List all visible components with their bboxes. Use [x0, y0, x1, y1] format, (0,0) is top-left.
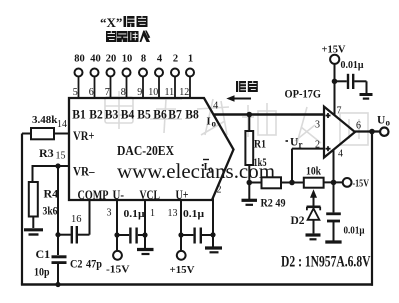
resistor R2 49: [249, 177, 304, 209]
svg-text:4: 4: [338, 149, 343, 160]
node R1 top: [247, 112, 253, 118]
svg-text:VR–: VR–: [73, 165, 95, 179]
svg-text:COMP: COMP: [78, 188, 109, 202]
svg-text:R2 49: R2 49: [261, 196, 286, 210]
terminal Uo: [377, 115, 391, 136]
node Ur: [289, 180, 295, 186]
wires: input stubs to DAC top edge: [79, 77, 191, 98]
op-amp U2 OP-17G: [324, 107, 355, 158]
node pin13: [178, 232, 183, 237]
svg-text:R3: R3: [39, 146, 54, 160]
ground (R1): [242, 183, 258, 205]
svg-text:13: 13: [168, 208, 178, 219]
ground (top 0.01u): [360, 95, 373, 99]
potentiometer 10k: [304, 166, 343, 206]
svg-text:4: 4: [213, 101, 219, 112]
op-amp - mark: [326, 146, 331, 151]
DAC U1 DAC-20EX body: [69, 98, 234, 200]
input terminal weight labels: [74, 54, 193, 65]
capacitor 0.01u (right -15V bypass): [326, 182, 364, 240]
svg-text:U-: U-: [113, 188, 125, 202]
svg-text:80: 80: [74, 54, 85, 65]
svg-text:15: 15: [56, 151, 66, 162]
wire Io (pin 4) to op-amp +input: [214, 113, 325, 115]
terminal +15V (pin 13): [170, 251, 195, 276]
svg-text:R4: R4: [44, 187, 59, 201]
svg-text:DAC-20EX: DAC-20EX: [117, 144, 174, 159]
ground (R4): [24, 230, 43, 235]
svg-text:16: 16: [71, 214, 82, 225]
svg-text:10: 10: [148, 87, 158, 98]
node pin4 supply: [331, 180, 337, 186]
wire pin4 to -15V node: [333, 150, 335, 183]
svg-text:U+: U+: [176, 188, 189, 202]
label Ur: [286, 137, 303, 150]
node pin3: [114, 232, 119, 237]
svg-text:7: 7: [105, 87, 110, 98]
node output: [369, 129, 375, 135]
svg-text:0.1μ: 0.1μ: [124, 209, 145, 220]
bottom rail wire: [21, 283, 373, 286]
wire node column x58: [57, 166, 59, 255]
svg-text:3: 3: [107, 208, 112, 219]
svg-text:B5: B5: [137, 108, 151, 122]
label B1..B8: [72, 108, 199, 122]
wire pin7 to +15V: [334, 64, 336, 116]
svg-text:1k5: 1k5: [254, 157, 267, 169]
svg-text:“X”: “X”: [100, 15, 122, 30]
pin 1 stub (VCL): [144, 200, 146, 248]
wire VR- (pin 15): [33, 165, 70, 167]
svg-text:40: 40: [90, 54, 101, 65]
svg-text:10k: 10k: [306, 166, 321, 178]
svg-text:7: 7: [337, 106, 342, 117]
svg-text:r: r: [299, 140, 303, 150]
svg-text:3k6: 3k6: [43, 204, 58, 218]
pin numbers 5..12: [73, 87, 189, 98]
node C1 on bottom rail: [55, 282, 60, 287]
pin 3 stub (U-): [116, 200, 118, 251]
svg-text:2: 2: [217, 185, 222, 196]
svg-text:-15V: -15V: [353, 179, 370, 190]
ground (0.01u right): [325, 240, 341, 243]
svg-text:0.01μ: 0.01μ: [344, 226, 365, 237]
pin 13 stub (U+): [180, 200, 182, 251]
svg-text:12: 12: [179, 87, 189, 98]
svg-text:www.elecians.com: www.elecians.com: [117, 159, 275, 183]
watermark hanzi row: [105, 91, 368, 145]
svg-text:1: 1: [150, 208, 155, 219]
node pin2: [210, 232, 215, 237]
svg-text:VCL: VCL: [140, 188, 161, 202]
svg-text:C1: C1: [36, 247, 51, 261]
svg-text:0.1μ: 0.1μ: [183, 209, 204, 220]
pin 2 stub from DAC bottom slant: [212, 198, 214, 247]
node pin1: [142, 232, 147, 237]
svg-text:o: o: [386, 118, 391, 128]
svg-text:R1: R1: [254, 139, 266, 151]
svg-text:6: 6: [356, 121, 361, 132]
svg-text:0.01μ: 0.01μ: [341, 60, 364, 71]
wire Ur node up to op-amp -input: [292, 149, 324, 183]
ground (pin 2 / U+ bypass): [205, 248, 222, 252]
op-amp + mark: [326, 113, 331, 118]
svg-text:I: I: [207, 117, 211, 128]
capacitor C2 47p: [58, 200, 102, 271]
capacitor 0.1u (U+ bypass): [181, 209, 213, 244]
node +15V junction: [332, 79, 338, 85]
wire output pin6: [355, 130, 380, 132]
svg-text:20: 20: [106, 54, 117, 65]
svg-text:B2: B2: [89, 108, 103, 122]
resistor R4 3k6: [29, 182, 58, 228]
svg-text:B7: B7: [168, 108, 182, 122]
svg-text:47p: 47p: [86, 257, 102, 271]
terminal -15V (pin 3): [106, 251, 130, 276]
capacitor 0.01u (top +15V bypass): [335, 60, 367, 93]
svg-text:B8: B8: [185, 108, 199, 122]
capacitor C1 10p: [34, 247, 67, 285]
svg-text:B1: B1: [72, 108, 86, 122]
svg-text:B6: B6: [153, 108, 167, 122]
svg-text:D2 : 1N957A.6.8V: D2 : 1N957A.6.8V: [281, 254, 371, 271]
zener diode D2: [291, 207, 321, 234]
label "X" chu-shu (divisor): [100, 15, 148, 30]
svg-text:I: I: [204, 162, 208, 173]
svg-text:D2: D2: [291, 215, 305, 227]
svg-text:+15V: +15V: [322, 44, 346, 56]
terminal +15V (top): [322, 44, 346, 64]
svg-text:5: 5: [73, 87, 78, 98]
resistor R3 3.48k: [22, 114, 69, 160]
svg-text:3.48k: 3.48k: [32, 114, 58, 126]
label heng-ding (constant) with arrow: [226, 81, 257, 102]
svg-text:10p: 10p: [34, 265, 50, 279]
ground (VCL): [137, 250, 154, 255]
left rail wire: [21, 134, 23, 285]
svg-text:+15V: +15V: [170, 264, 195, 276]
svg-text:8: 8: [121, 87, 126, 98]
ground (D2): [306, 235, 321, 239]
svg-text:8: 8: [141, 54, 146, 65]
svg-text:-15V: -15V: [106, 264, 130, 276]
node C2 junction: [55, 232, 60, 237]
label Io-bar (bottom output): [203, 160, 214, 175]
svg-text:o: o: [212, 119, 217, 129]
svg-text:1: 1: [188, 54, 193, 65]
svg-text:B3: B3: [105, 108, 119, 122]
svg-text:2: 2: [173, 54, 178, 65]
input terminal circles: [75, 69, 195, 77]
node pin15 junction: [55, 163, 60, 168]
svg-text:o: o: [209, 164, 214, 174]
terminal -15V (right): [343, 178, 370, 190]
svg-text:11: 11: [165, 87, 175, 98]
svg-text:B4: B4: [121, 108, 135, 122]
wire drop to R4: [32, 165, 34, 182]
svg-text:2: 2: [315, 140, 320, 151]
label shu-zi-shu-ru (digital input): [106, 31, 150, 43]
resistor R1 1k5: [245, 115, 266, 183]
svg-text:14: 14: [57, 119, 67, 130]
svg-text:OP-17G: OP-17G: [285, 89, 322, 101]
capacitor 0.1u (U- bypass): [117, 209, 145, 244]
svg-text:C2: C2: [70, 257, 83, 271]
node R1 bottom: [247, 180, 253, 186]
svg-text:6: 6: [89, 87, 94, 98]
svg-text:3: 3: [315, 120, 320, 131]
svg-text:10: 10: [122, 54, 133, 65]
right rail wire (Uo feedback): [371, 132, 373, 286]
svg-text:9: 9: [137, 87, 142, 98]
svg-text:4: 4: [157, 54, 163, 65]
svg-text:VR+: VR+: [73, 129, 95, 143]
